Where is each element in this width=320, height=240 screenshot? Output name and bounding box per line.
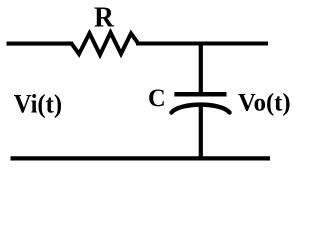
wire capacitor top lead <box>199 44 203 95</box>
svg-text:C: C <box>148 84 166 112</box>
wire top-left (input to resistor) <box>7 42 74 46</box>
capacitor C1 <box>172 94 230 112</box>
wire capacitor bottom lead <box>199 106 203 158</box>
wire bottom rail (ground return) <box>11 156 271 160</box>
svg-text:R: R <box>94 2 114 34</box>
resistor R1 <box>72 33 139 55</box>
wire top-right (resistor to output) <box>136 41 268 45</box>
svg-text:Vi(t): Vi(t) <box>14 89 62 119</box>
svg-text:Vo(t): Vo(t) <box>238 89 291 116</box>
